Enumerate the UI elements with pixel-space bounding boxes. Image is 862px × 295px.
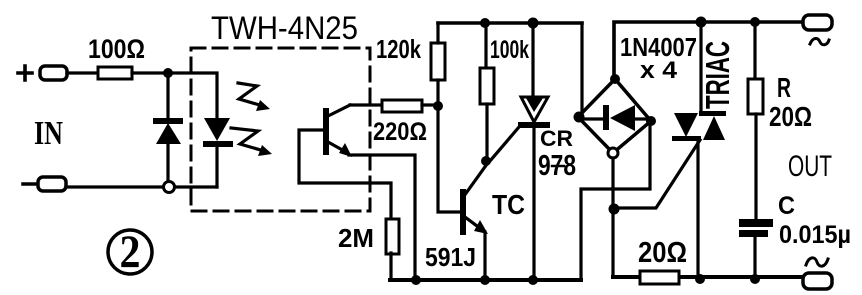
wire 120k bottom lead [436,80,439,101]
wire cap bottom to rail [753,237,756,279]
wire R100 to LED anode elbow [132,73,217,118]
wire 100k bottom lead [485,104,488,158]
light arrow 2 [231,128,272,156]
svg-text:100Ω: 100Ω [88,34,145,64]
resistor 120k [431,43,445,80]
wire 220ohm to node [422,103,438,106]
node dot rail/TRIAC bottom [695,274,705,284]
terminal AC top right [803,15,832,30]
wire rail riser to bridge right corner [581,126,650,280]
wire bridge bottom to gate node [611,158,614,277]
figure number circle 2 [108,226,152,278]
wire SCR gate [490,127,519,161]
label ~ top [810,38,829,44]
node dot rail/cap [750,274,760,284]
phototransistor of optocoupler [323,105,352,157]
node dot collector/100k/gate [481,156,491,166]
top rail left section [438,21,582,25]
optocoupler dashed box TWH-4N25 [191,48,370,211]
top rail right section [614,22,803,79]
wire R top lead [753,22,756,79]
svg-text:0.015µ: 0.015µ [779,221,851,249]
wire 2M bottom to rail [389,253,392,280]
svg-text:591J: 591J [425,242,476,272]
wire SCR anode [531,23,534,98]
svg-text:100k: 100k [490,36,529,64]
node junction dot [163,68,173,78]
label + [18,66,32,80]
wire gate node to TRIAC gate [614,140,700,208]
svg-text:2: 2 [120,226,141,278]
wire + terminal to R 100 [67,71,98,74]
wire bottom lead of protection diode [166,143,169,182]
svg-text:CR: CR [540,126,573,151]
TRIAC [672,111,726,141]
node dot rail/TRIAC top [696,17,707,28]
resistor 100k [480,68,494,104]
terminal AC bottom right [803,273,832,289]
resistor R 20ohm [748,79,763,114]
svg-text:978: 978 [538,150,576,182]
wire 100k top lead [484,23,487,68]
node open junction circle [164,182,175,193]
wire - terminal to junction circle [66,185,163,188]
wire emitter to down elbow [349,155,415,279]
svg-text:120k: 120k [376,34,421,64]
resistor 2M [386,219,399,254]
svg-text:x 4: x 4 [640,57,678,84]
node dot rail/100k [480,18,490,28]
wire junction circle to LED cathode [175,185,217,188]
bottom left rail [390,278,581,282]
svg-text:TWH-4N25: TWH-4N25 [211,10,358,46]
wire node down to TC base [438,111,460,212]
svg-text:20Ω: 20Ω [638,237,687,269]
LED of optocoupler (pointing down) [203,118,233,147]
transistor TC [460,164,488,235]
resistor 100ohm [98,67,132,79]
wire TRIAC MT2 [699,22,702,112]
svg-text:2M: 2M [338,223,374,253]
wire 120k top lead [436,23,439,43]
node dot gate junction [609,204,620,215]
bottom right rail [613,275,803,279]
wire R bottom to cap [754,114,757,219]
node junction dot 220/120k [433,101,443,111]
svg-text:OUT: OUT [788,150,832,183]
label ~ bottom [806,258,828,266]
svg-text:TC: TC [492,189,525,220]
svg-text:R: R [777,72,791,103]
wire LED cathode down lead [215,147,218,187]
svg-text:220Ω: 220Ω [373,118,427,146]
node dot rail/emitter-path [411,275,421,285]
resistor 20ohm bottom [640,271,679,284]
node dot rail/SCR cathode [528,275,538,285]
node dot rail/R top [750,17,760,27]
svg-text:20Ω: 20Ω [769,101,812,132]
wire top lead of protection diode [166,73,169,118]
label 978 (7 has crossbar) [552,165,564,168]
svg-text:IN: IN [34,115,63,152]
capacitor C 0.015u [739,219,773,237]
wire phototransistor base loop [299,130,391,219]
svg-text:C: C [778,192,795,220]
wire TC emitter to rail [483,232,486,280]
light arrow 1 [238,83,270,111]
wire left rail down to bridge left corner [580,23,583,114]
label - [23,182,37,186]
bridge rectifier 1N4007 x4 [574,74,657,158]
SCR CR978 [518,97,550,128]
wire TRIAC MT1 to rail [696,141,699,279]
wire SCR cathode to rail [532,128,535,280]
wire collector to 220ohm [350,103,382,106]
terminal - input [38,177,66,191]
diode D1 protection (pointing up) [153,118,183,144]
svg-text:TRIAC: TRIAC [699,41,736,109]
resistor 220ohm [382,100,422,112]
terminal + input [40,66,67,80]
node dot rail/TC emitter [480,275,490,285]
node dot rail/SCR [528,18,539,29]
